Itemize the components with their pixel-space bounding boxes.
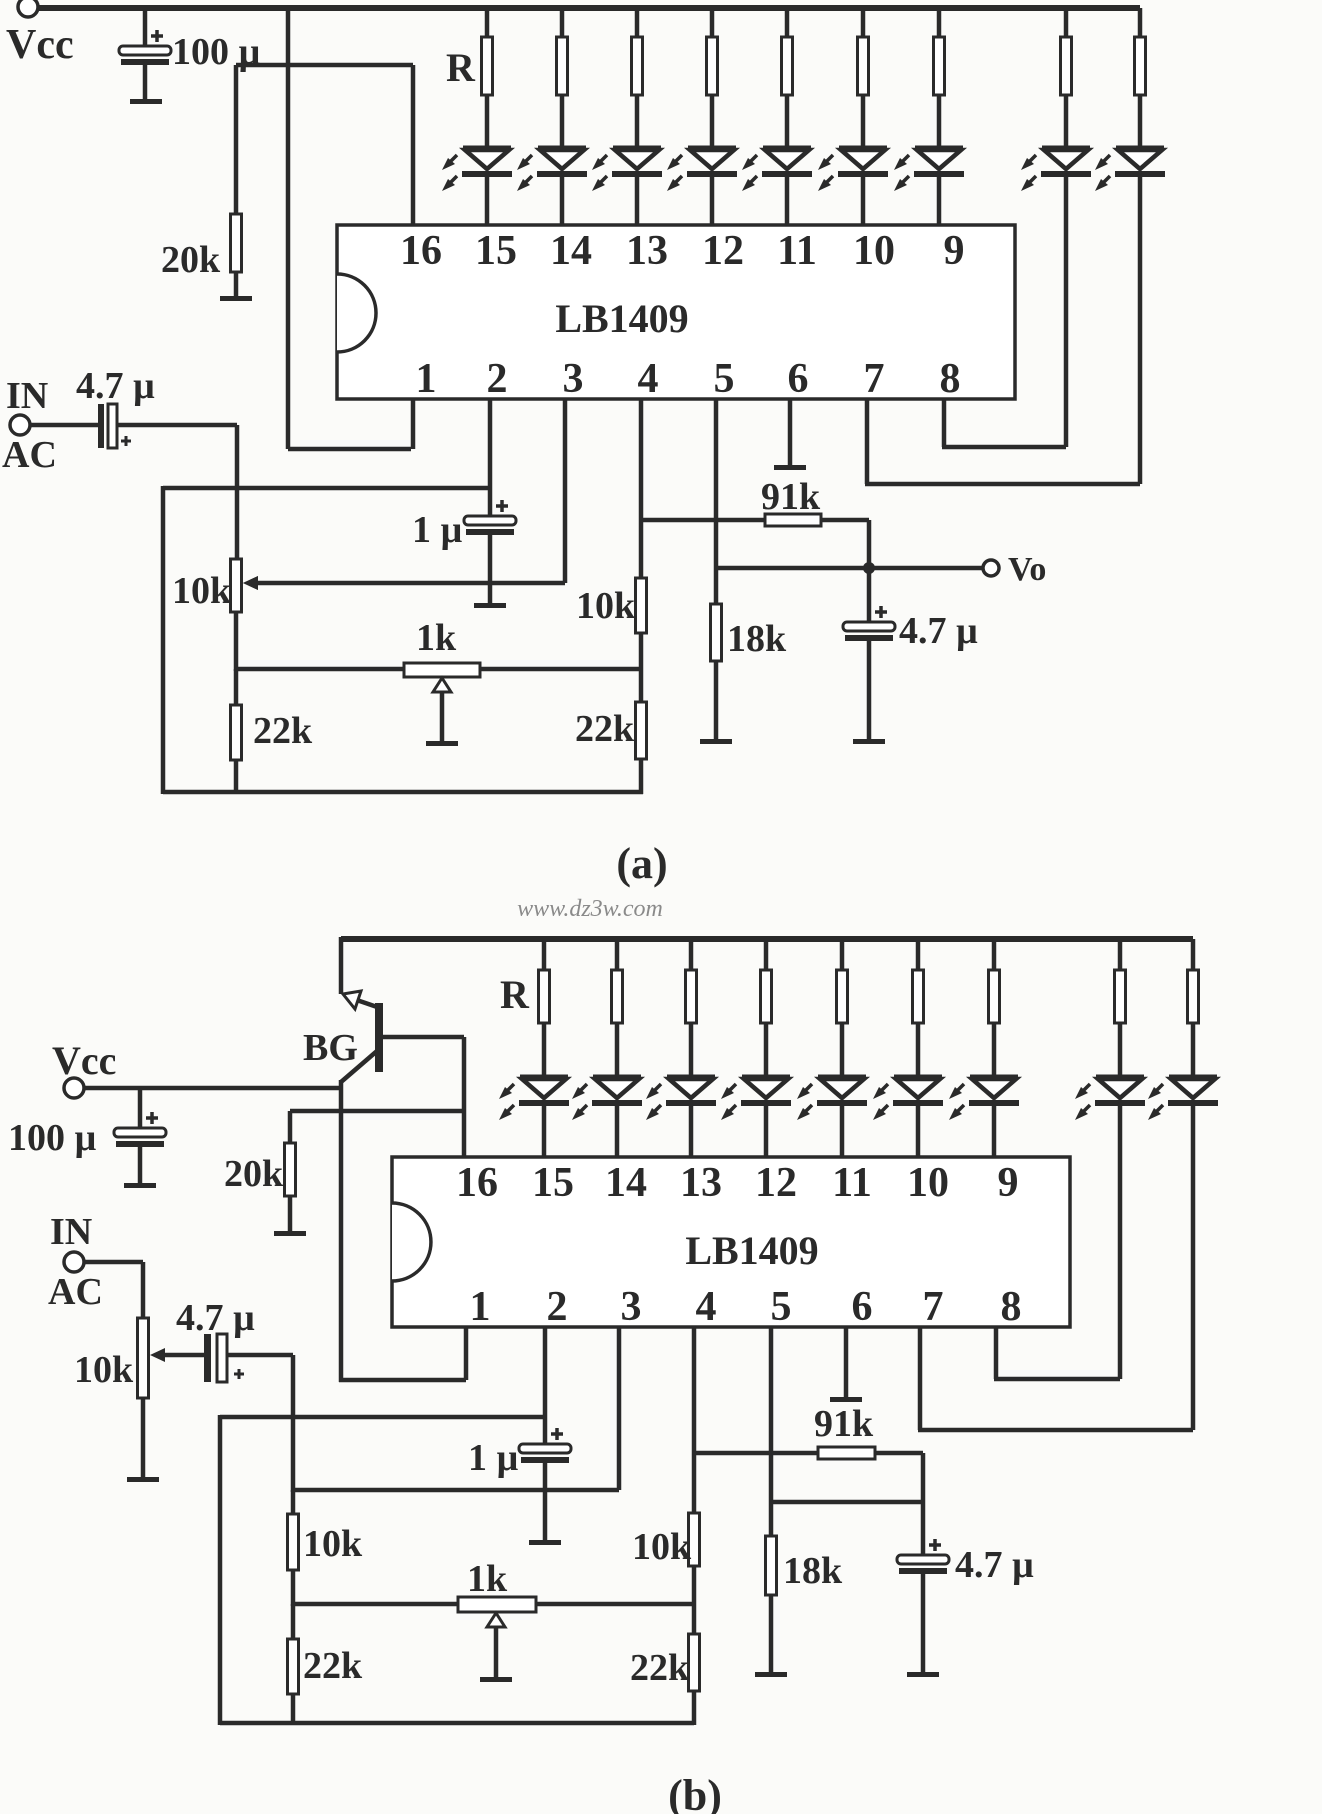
resistor 18k (a)	[711, 604, 722, 740]
svg-text:10k: 10k	[303, 1523, 363, 1565]
resistor 91k (a)	[765, 514, 821, 526]
resistor 22k right (b)	[689, 1606, 700, 1725]
wire IN (b)	[84, 1262, 143, 1318]
potentiometer 1k (a)	[404, 663, 480, 742]
svg-text:6: 6	[852, 1284, 873, 1330]
svg-text:15: 15	[532, 1160, 574, 1206]
LED col7 (a)	[1095, 148, 1165, 191]
resistor R pin13 (b)	[686, 939, 697, 1077]
ground under 100µ (b)	[124, 1183, 156, 1188]
resistor R pin9 (b)	[989, 939, 1000, 1077]
svg-text:4: 4	[638, 356, 659, 402]
label 4.7µ input (a)	[76, 365, 155, 407]
label Vo (a)	[1008, 551, 1046, 588]
ground under 4.7µ (a)	[853, 739, 885, 744]
wire LED col8 to pin8 (a)	[1064, 173, 1069, 447]
svg-text:10k: 10k	[632, 1526, 692, 1568]
resistor R pin13 (a)	[632, 8, 643, 148]
label 10k input (a)	[172, 570, 232, 612]
label 4.7µ input (b)	[176, 1297, 255, 1339]
capacitor 4.7µ output (a)	[843, 568, 895, 740]
svg-text:AC: AC	[48, 1271, 103, 1313]
svg-text:1: 1	[416, 356, 437, 402]
wire pin5 (b)	[769, 1327, 774, 1536]
LED pin12 (a)	[667, 148, 737, 225]
resistor 10k left (b)	[288, 1490, 299, 1606]
svg-text:10: 10	[907, 1160, 949, 1206]
wire pin1 (b)	[339, 1327, 466, 1380]
potentiometer 10k input (a)	[231, 559, 259, 671]
capacitor 1µ (a)	[464, 500, 516, 604]
LED col8 (a)	[1021, 148, 1091, 191]
LED pin14 (a)	[517, 148, 587, 225]
label 1µ (b)	[468, 1437, 519, 1479]
resistor R pin12 (a)	[707, 8, 718, 148]
svg-text:R: R	[446, 45, 476, 90]
node junction Vo (a)	[863, 562, 875, 574]
svg-text:AC: AC	[2, 434, 57, 476]
svg-text:(b): (b)	[668, 1771, 722, 1814]
svg-text:18k: 18k	[727, 618, 787, 660]
resistor R pin9 (a)	[934, 8, 945, 148]
svg-text:4.7 µ: 4.7 µ	[955, 1544, 1034, 1586]
wire LED col7 to pin7 (a)	[1138, 173, 1143, 484]
ground under 20k (a)	[220, 296, 252, 301]
label (a)	[616, 839, 667, 888]
wire pin5 (a)	[714, 399, 719, 604]
svg-text:Vo: Vo	[1008, 551, 1046, 588]
svg-text:1k: 1k	[416, 617, 457, 659]
ground under 1k wiper (b)	[480, 1677, 512, 1682]
transistor Q1 BG (b)	[341, 991, 464, 1082]
label 20k (b)	[224, 1153, 284, 1195]
ground under 4.7µ (b)	[907, 1672, 939, 1677]
label 91k (a)	[761, 476, 821, 518]
label AC (a)	[2, 434, 57, 476]
resistor R pin12 (b)	[761, 939, 772, 1077]
wire 1k line (b)	[293, 1602, 694, 1607]
svg-text:2: 2	[487, 356, 508, 402]
resistor R pin11 (a)	[782, 8, 793, 148]
svg-text:5: 5	[714, 356, 735, 402]
LED col7 (b)	[1148, 1077, 1218, 1120]
resistor R col7 (a)	[1135, 8, 1146, 148]
label R (b)	[500, 972, 530, 1017]
op-amp U2 LB1409 (b)	[392, 1157, 1070, 1330]
LED pin14 (b)	[572, 1077, 642, 1157]
node Vo terminal (a)	[983, 560, 999, 576]
LED pin13 (b)	[646, 1077, 716, 1157]
wire 20k to pin16 (a)	[236, 63, 413, 68]
wire 18k top line (b)	[771, 1500, 923, 1505]
resistor 91k (b)	[818, 1447, 875, 1459]
label BG (b)	[303, 1027, 358, 1069]
label 100µ (b)	[8, 1117, 97, 1159]
label 18k (b)	[783, 1550, 843, 1592]
svg-text:LB1409: LB1409	[685, 1228, 818, 1273]
capacitor 4.7µ output (b)	[897, 1502, 949, 1673]
wire Vo line (a)	[716, 566, 983, 571]
label 91k (b)	[814, 1403, 874, 1445]
svg-text:7: 7	[923, 1284, 944, 1330]
svg-text:20k: 20k	[224, 1153, 284, 1195]
wire pin7 to LED col7 (b)	[918, 1327, 1193, 1430]
wire bottom rail (a)	[163, 790, 643, 795]
LED pin15 (a)	[442, 148, 512, 225]
ground under 1µ (a)	[474, 603, 506, 608]
svg-text:Vcc: Vcc	[52, 1038, 116, 1083]
label AC (b)	[48, 1271, 103, 1313]
svg-text:7: 7	[864, 356, 885, 402]
wire feedback top (b)	[220, 1415, 545, 1420]
ground under 1k wiper (a)	[426, 741, 458, 746]
svg-text:5: 5	[771, 1284, 792, 1330]
label 18k (a)	[727, 618, 787, 660]
label 1k (a)	[416, 617, 457, 659]
svg-text:Vcc: Vcc	[6, 22, 74, 68]
wire pin6 (b)	[844, 1327, 849, 1398]
resistor R col8 (b)	[1115, 939, 1126, 1077]
resistor 18k (b)	[766, 1536, 777, 1673]
LED pin10 (a)	[818, 148, 888, 225]
resistor 10k right (b)	[689, 1513, 700, 1606]
wire 91k line (b)	[694, 1453, 923, 1502]
svg-text:16: 16	[456, 1160, 498, 1206]
label 10k right (a)	[576, 585, 636, 627]
svg-text:13: 13	[626, 228, 668, 274]
label 10k left (b)	[303, 1523, 363, 1565]
svg-text:10k: 10k	[172, 570, 232, 612]
svg-text:9: 9	[998, 1160, 1019, 1206]
ground under 18k (b)	[755, 1672, 787, 1677]
wire LED col7 to pin7 (b)	[1191, 1102, 1196, 1430]
svg-text:10k: 10k	[74, 1349, 134, 1391]
svg-text:91k: 91k	[761, 476, 821, 518]
LED pin13 (a)	[592, 148, 662, 225]
resistor R col8 (a)	[1061, 8, 1072, 148]
label 22k right (a)	[575, 708, 635, 750]
wire 91k line (a)	[641, 520, 869, 568]
wire Vcc top rail (a)	[38, 5, 1140, 11]
resistor R col7 (b)	[1188, 939, 1199, 1077]
svg-text:16: 16	[400, 228, 442, 274]
capacitor 100µ (b)	[114, 1088, 166, 1184]
wire base to pin16 (b)	[462, 1037, 467, 1157]
svg-text:IN: IN	[50, 1211, 92, 1253]
watermark	[517, 896, 663, 922]
capacitor 4.7µ input (b)	[204, 1334, 244, 1382]
svg-text:LB1409: LB1409	[555, 296, 688, 341]
label 10k input (b)	[74, 1349, 134, 1391]
wire pin4 (a)	[639, 399, 644, 578]
node IN terminal (a)	[10, 415, 30, 435]
svg-text:100 µ: 100 µ	[8, 1117, 97, 1159]
resistor 10k right (a)	[636, 578, 647, 671]
svg-text:8: 8	[940, 356, 961, 402]
svg-text:3: 3	[563, 356, 584, 402]
label 4.7µ output (b)	[955, 1544, 1034, 1586]
ground under pot (b)	[127, 1477, 159, 1482]
wire pin8 to LED col8 (a)	[942, 399, 1066, 447]
LED col8 (b)	[1075, 1077, 1145, 1120]
svg-text:4.7 µ: 4.7 µ	[899, 610, 978, 652]
node Vcc terminal (b)	[64, 1078, 84, 1098]
label 4.7µ output (a)	[899, 610, 978, 652]
ground under 1µ (b)	[529, 1540, 561, 1545]
wire pin3 (b)	[293, 1327, 619, 1490]
LED pin10 (b)	[873, 1077, 943, 1157]
wire left edge (b)	[218, 1415, 223, 1725]
label 22k right (b)	[630, 1647, 690, 1689]
svg-text:22k: 22k	[630, 1647, 690, 1689]
wire pin3 to pot wiper (a)	[243, 399, 565, 590]
wire 20k to pin16 (b)	[290, 1109, 464, 1114]
svg-text:1 µ: 1 µ	[468, 1437, 519, 1479]
wire pin4 (b)	[692, 1327, 697, 1513]
wire input cap to pot (a)	[117, 425, 237, 559]
svg-text:IN: IN	[6, 375, 48, 417]
svg-text:22k: 22k	[575, 708, 635, 750]
svg-text:8: 8	[1001, 1284, 1022, 1330]
resistor 20k (b)	[285, 1111, 296, 1232]
svg-text:15: 15	[475, 228, 517, 274]
label 100µ (a)	[172, 31, 261, 73]
label R (a)	[446, 45, 476, 90]
wire feedback top (a)	[163, 486, 490, 491]
wire rail drop to transistor (b)	[339, 937, 344, 994]
svg-text:(a): (a)	[616, 839, 667, 888]
svg-text:11: 11	[832, 1160, 872, 1206]
svg-text:10k: 10k	[576, 585, 636, 627]
capacitor 1µ (b)	[519, 1428, 571, 1541]
LED pin15 (b)	[499, 1077, 569, 1157]
resistor 22k left (a)	[231, 669, 242, 794]
resistor R pin10 (b)	[913, 939, 924, 1077]
svg-text:9: 9	[944, 228, 965, 274]
label 22k left (b)	[303, 1645, 363, 1687]
svg-text:13: 13	[680, 1160, 722, 1206]
wire 1k line (a)	[236, 667, 641, 672]
Vcc label (b)	[52, 1038, 116, 1083]
svg-text:1: 1	[470, 1284, 491, 1330]
resistor R pin10 (a)	[858, 8, 869, 148]
wire left edge (a)	[161, 486, 166, 794]
svg-text:12: 12	[755, 1160, 797, 1206]
wire input cap to pin3 line (b)	[227, 1355, 293, 1492]
svg-text:R: R	[500, 972, 530, 1017]
svg-text:3: 3	[621, 1284, 642, 1330]
wire Vcc rail drop to pin1 (a)	[286, 8, 291, 449]
label 22k left (a)	[253, 710, 313, 752]
wire collector down to pin1 line (b)	[339, 1080, 344, 1382]
label 20k (a)	[161, 239, 221, 281]
wire pin1 to Vcc rail (a)	[288, 399, 413, 449]
svg-text:11: 11	[777, 228, 817, 274]
wire bottom rail (b)	[220, 1721, 694, 1726]
wire LED col8 to pin8 (b)	[1118, 1102, 1123, 1379]
svg-text:www.dz3w.com: www.dz3w.com	[517, 896, 663, 922]
resistor R pin14 (a)	[557, 8, 568, 148]
label IN (a)	[6, 375, 48, 417]
resistor 22k right (a)	[636, 671, 647, 794]
op-amp U1 LB1409 (a)	[337, 225, 1015, 402]
wire IN (a)	[30, 423, 98, 428]
wire pot wiper to cap (b)	[163, 1353, 204, 1358]
svg-text:4.7 µ: 4.7 µ	[176, 1297, 255, 1339]
label 10k right (b)	[632, 1526, 692, 1568]
ground under 100µ (a)	[130, 99, 162, 104]
ground under 18k (a)	[700, 739, 732, 744]
wire Vcc top rail (b)	[341, 936, 1193, 942]
capacitor 4.7µ input (a)	[98, 404, 131, 448]
resistor 22k left (b)	[288, 1604, 299, 1725]
wire pin2 (b)	[543, 1327, 548, 1444]
svg-text:14: 14	[605, 1160, 647, 1206]
label 1µ (a)	[412, 509, 463, 551]
capacitor 100µ (a)	[119, 10, 171, 100]
svg-text:14: 14	[550, 228, 592, 274]
wire Vcc (b)	[84, 1086, 341, 1091]
svg-text:18k: 18k	[783, 1550, 843, 1592]
svg-text:4.7 µ: 4.7 µ	[76, 365, 155, 407]
svg-text:22k: 22k	[303, 1645, 363, 1687]
LED pin12 (b)	[721, 1077, 791, 1157]
potentiometer 1k (b)	[458, 1597, 536, 1678]
svg-text:22k: 22k	[253, 710, 313, 752]
resistor 20k (a)	[231, 65, 242, 297]
svg-text:1k: 1k	[467, 1558, 508, 1600]
svg-text:10: 10	[853, 228, 895, 274]
ground under 20k (b)	[274, 1231, 306, 1236]
svg-text:20k: 20k	[161, 239, 221, 281]
wire pin7 to LED col7 (a)	[865, 399, 1140, 484]
LED pin9 (a)	[894, 148, 964, 225]
LED pin11 (b)	[797, 1077, 867, 1157]
svg-text:2: 2	[547, 1284, 568, 1330]
wire pin2 (a)	[488, 399, 493, 516]
label 1k (b)	[467, 1558, 508, 1600]
node IN terminal (b)	[64, 1252, 84, 1272]
ground pin6 (b)	[830, 1397, 862, 1402]
svg-text:6: 6	[788, 356, 809, 402]
LED pin9 (b)	[949, 1077, 1019, 1157]
resistor R pin15 (b)	[539, 939, 550, 1077]
svg-text:BG: BG	[303, 1027, 358, 1069]
wire pin6 (a)	[788, 399, 793, 466]
wire pin16 (a)	[411, 65, 416, 225]
svg-text:1 µ: 1 µ	[412, 509, 463, 551]
label (b)	[668, 1771, 722, 1814]
ground pin6 (a)	[774, 465, 806, 470]
resistor R pin11 (b)	[837, 939, 848, 1077]
Vcc label (a)	[6, 22, 74, 68]
svg-text:12: 12	[702, 228, 744, 274]
svg-text:4: 4	[696, 1284, 717, 1330]
node Vcc terminal (a)	[18, 0, 38, 17]
label IN (b)	[50, 1211, 92, 1253]
resistor R pin14 (b)	[612, 939, 623, 1077]
LED pin11 (a)	[742, 148, 812, 225]
resistor R pin15 (a)	[482, 8, 493, 148]
svg-text:91k: 91k	[814, 1403, 874, 1445]
potentiometer 10k input (b)	[138, 1318, 166, 1478]
wire pin8 to LED col8 (b)	[994, 1327, 1120, 1379]
